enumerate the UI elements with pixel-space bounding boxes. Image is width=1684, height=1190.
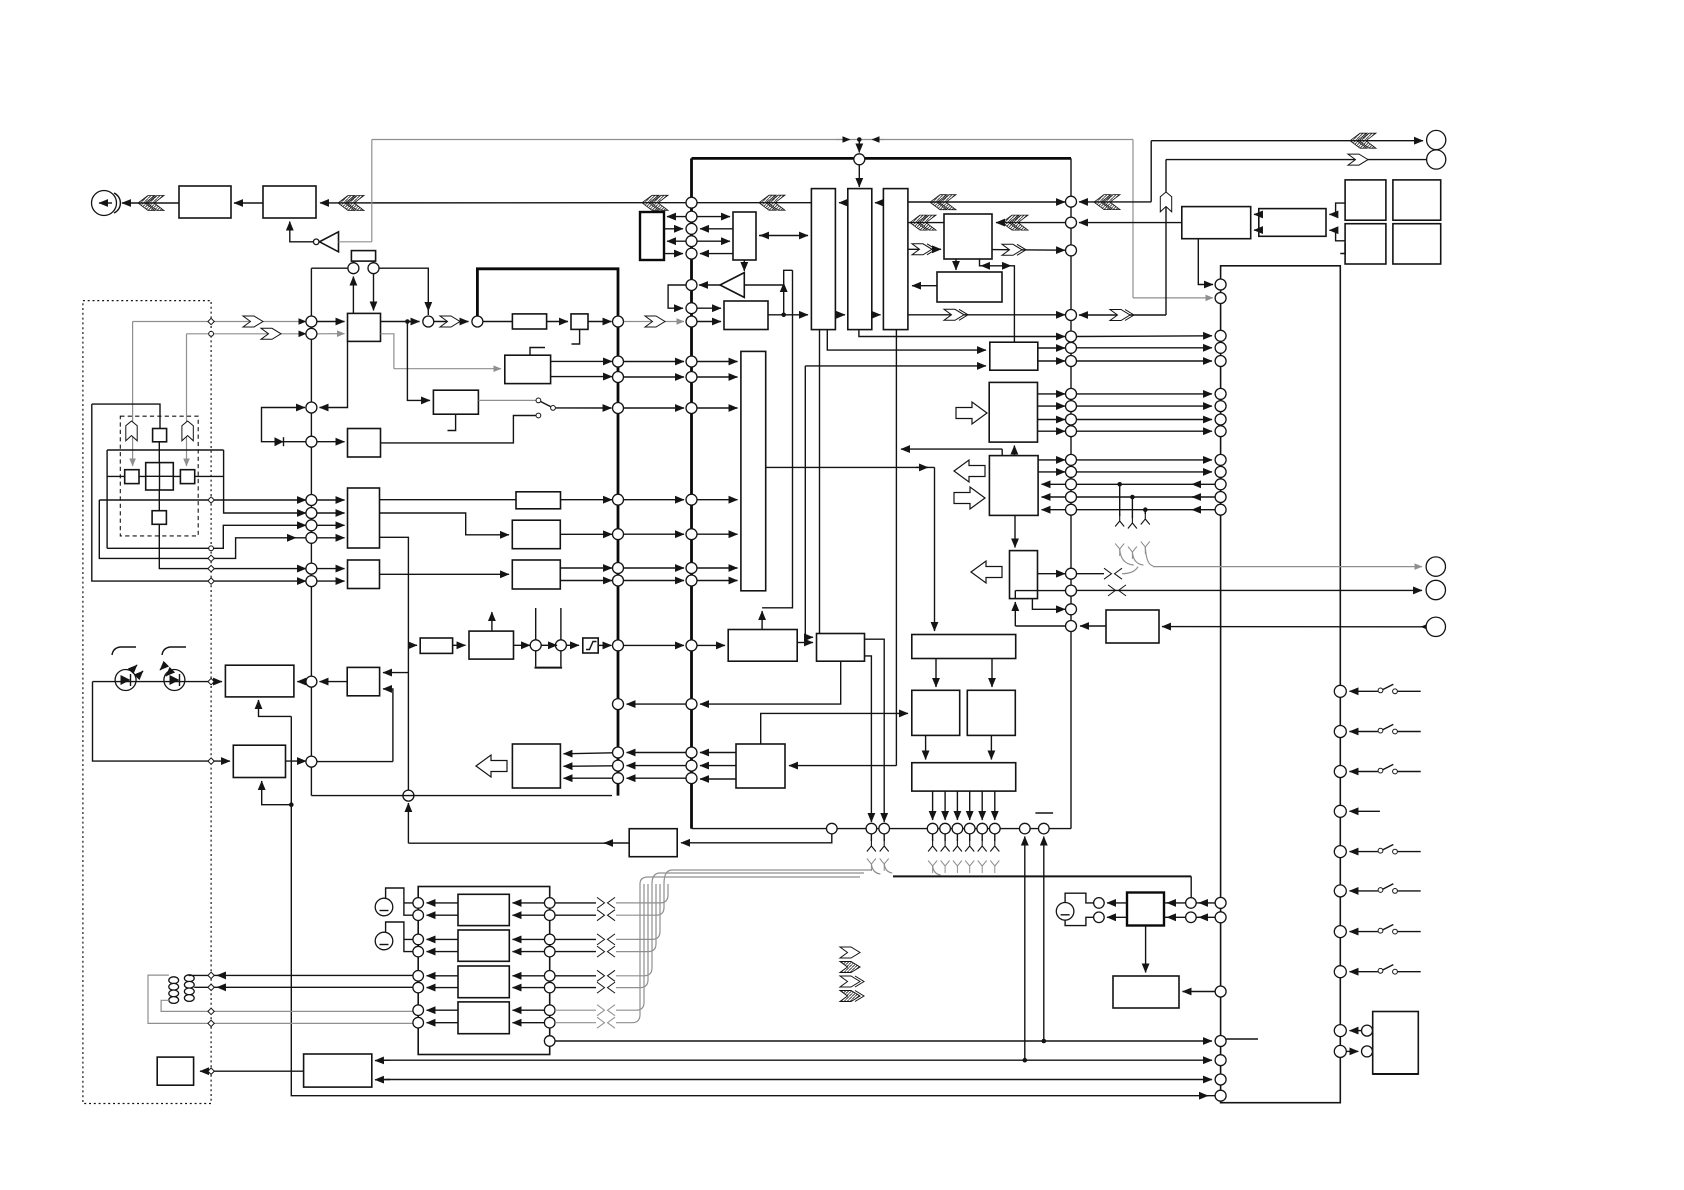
hysteresis glyph [583,638,598,653]
label stub [1035,812,1053,814]
grey tracking line 2 [187,333,307,335]
IC2-IC3 link y202.7 [875,202,883,204]
grey into CN right [1133,297,1213,299]
box A1 [179,186,231,218]
wire inv2 right to riser [744,284,783,286]
key sw row 5 [1334,846,1346,858]
wires bus1071 to U10 pins [1077,335,1213,338]
wire PH2 to bus618 pin [588,321,612,323]
node ph2 [555,640,566,651]
wire hysteresis to bus618 [598,644,611,646]
output B line [107,525,306,548]
data rail 2 [377,1059,1212,1061]
legend chevron hatched [840,962,860,973]
wire 692 to box L [697,644,725,646]
wire BB to AA [200,1070,304,1072]
stub sq3 to U10 corner [1340,243,1345,254]
tap to box HH [408,644,417,646]
junction drop to box W1 [407,322,430,401]
box JJ (display) [1373,1012,1419,1075]
big box U10 (system control IC) [1221,266,1341,1103]
stub row 4 [1334,805,1346,817]
drop c2 to box SV1 [373,274,375,311]
grey tracking coil loop [148,975,413,1023]
input pins to SV1 [317,321,345,323]
U10 pin stub [1226,1038,1258,1040]
FF lower input from pin761 riser [383,689,393,762]
IC2-IC3 link y314.8 [872,314,881,316]
square sq1 [1345,180,1386,220]
corner riser x1151.2 [1150,141,1152,202]
box W1 (wobble) [433,390,478,414]
switch SW1 contact c [536,413,541,418]
bit line 3 with break [555,938,596,940]
bus311 pins [306,316,317,327]
link 618-692 y645.4 [624,644,685,646]
box DAC1 [458,894,509,925]
DAC left wires [427,902,459,904]
box S (decoder) [990,342,1038,370]
H out to bus618 [561,499,613,501]
summing node c2 [368,263,379,274]
audio out source G2 [375,932,393,950]
wire focus coil bottom [194,986,413,988]
wire inverter to A2 bottom [290,222,314,242]
box M out1 drop [865,639,885,822]
wire ph2 to hysteresis [566,644,579,646]
grey wire to box FL [394,368,501,370]
motor M1 [92,191,121,216]
tall box IC2 [848,189,872,330]
key sw row 2 [1334,726,1346,738]
box C [1182,207,1251,239]
V bottom out to pin609 [1032,599,1065,610]
Y pins to O and O2 [935,658,937,687]
grey riser [371,140,373,242]
SV1 grey lower output [381,334,394,369]
tap riser pin1043 [1043,837,1045,1042]
connector J1 [1427,130,1446,149]
key sw row 1 [1334,685,1346,697]
detector side links [107,475,224,477]
IC3 out y314.8 to bus1071 [908,314,1065,316]
link bus1071 to flag riser y315 [1079,314,1166,316]
link 618-692 y361.5 [624,361,685,363]
wire EE out to pin761 [286,760,307,762]
FL flag stub [530,348,545,356]
wire pin681 to DD [297,681,306,683]
wire y202 IC3 to bus1071 [908,201,1065,203]
wire HH to LL [453,644,466,646]
box K [512,560,560,589]
clock pin circle on rail [854,154,865,165]
xtal pins right [1186,898,1197,909]
left column lead [106,450,108,548]
big arrow out U [954,460,985,482]
data rail 3 [377,1079,1212,1081]
JJ link pins [1334,1025,1346,1037]
stem to bottom square [158,490,160,511]
box EE bottom feed [262,781,292,805]
bottom rail bus311 to bus618 [311,795,612,797]
box DAC4 [458,1002,509,1034]
chevron on grey 1 [243,316,263,327]
wires to U10 pins [1199,902,1215,904]
square sq4 [1393,224,1441,264]
wire RF1 bottom to RF2 [955,259,957,270]
box V (mute) [1010,551,1038,599]
box A2 [263,186,316,218]
U outs [1038,459,1065,461]
diode loop [262,408,306,442]
box DD bottom feed [259,700,292,716]
wire to connector J2 [1166,159,1426,161]
bit line 6 with break [555,987,596,989]
tall box F (servo DSP) [741,351,766,590]
U bottom pin to V [1014,515,1016,547]
box LL [469,631,514,659]
N outs to 692 pins [700,752,736,754]
box GG (xtal osc) [1127,893,1164,926]
wire bus692 to A2 [320,202,686,204]
wire to connector J1 [1151,140,1423,142]
box FF (T-servo) [347,667,379,695]
wire motor to box A1 [122,202,179,204]
box FL (focus logic) [505,355,551,383]
drop to clock pin circle [858,140,860,153]
detector bottom square [152,511,166,525]
wire SV1 bottom to pin407 [320,341,348,408]
flag glyph right [182,421,193,441]
links 692-618 feed rows [627,752,687,754]
wire LED loop to box EE [93,682,231,762]
key sw row 8 [1334,966,1346,978]
IC3 pin long drop to box N [895,329,897,765]
grey link bus618 to bus692 y321.5 [624,321,685,323]
tap riser pin1024 [1024,837,1026,1061]
G1 bracket [386,888,413,915]
detector quad grid [146,463,174,490]
grey wire W1 to switch SW1 [479,399,536,401]
top tie bar [107,449,224,451]
hatched arrow on motor wire [138,196,164,211]
wires 692 to box F [697,361,738,363]
box D2 [733,212,756,260]
riser c1 to box SV1 [352,277,354,314]
links 618-692 servo rows [624,499,685,501]
wires D to C [1254,213,1259,215]
big arrow KK [476,755,507,777]
solid L lead [92,404,160,428]
box P (output stage) [912,763,1016,791]
grey drop to detector [132,322,134,467]
box D1 (thick demod) [640,212,664,260]
FL out2 to bus618 [551,376,612,378]
coil L2 [184,975,194,1002]
box DAC2 [458,930,509,961]
switch SW1 contact a [536,398,541,403]
wire y222.6 bus1071 to box C [1079,222,1182,224]
legend chevron open double [840,976,864,987]
box DD (APC) [225,665,294,697]
box DAC3 [458,966,509,998]
box O2 [967,690,1015,735]
feedthrough small circle [209,331,214,336]
wire x896 to box U top [901,448,1002,450]
key sw row 6 [1334,885,1346,897]
grey bit line 7 [555,1009,596,1011]
tall box IC1 [811,189,835,330]
bit line 2 with break [555,914,596,916]
output D line [92,404,306,581]
IC1-IC2 link y314.8 [835,314,845,316]
feedback loop pin285 to pin308 [668,285,686,308]
key sw row 7 [1334,926,1346,938]
X out to pin626 [1080,625,1106,627]
V bottom feed riser [1014,602,1016,626]
box O [912,690,960,735]
bit line 5 with break [555,975,596,977]
node pin796 [403,790,414,801]
IC1 pin2 to box S in1 [827,329,986,350]
wire y202 right leg from corner [1079,201,1151,203]
FF out to pin681 [320,681,348,683]
grey wire inverter input [339,241,372,243]
grey right leg [1132,140,1134,298]
frame right pins [544,898,555,909]
box U (codec) [989,456,1038,516]
link 618-692 y377 [624,376,685,378]
audio out source G1 [375,898,393,916]
IC1 pin drop to M top [819,329,821,633]
wire RF2 to IC3 [912,285,937,287]
box C bottom to CN284 [1198,239,1213,285]
wire focus coil top [189,974,413,976]
wire LL to peak nodes [514,644,531,646]
wire pin477 to box PH1 [483,321,513,323]
switch SW1 blade [541,402,551,407]
E1 output row y=314.8 [768,314,808,316]
detector top square [153,429,167,442]
square sq2 [1393,180,1441,220]
bus1071 pins [1066,196,1077,207]
wire L to M [797,642,813,644]
wire RF1 to bus1071 y222.6 [996,222,1065,224]
chevron on grey 2 [261,328,281,339]
box F out to box Y feed [766,466,935,468]
LED D-L1 [115,665,143,691]
thick top rail [692,157,1072,160]
drop to box L top [761,611,763,630]
junction dot on supply riser [289,802,294,807]
box M out2 drop [865,656,872,822]
switch SW1 contact b [551,406,556,411]
serial rail to crystal block [893,875,1191,877]
box EE (LD drive) [233,745,285,777]
branch riser x805.3 [805,636,813,638]
box II (reset) [1113,976,1179,1008]
LL top pin [491,612,493,631]
link 618-692 y408 [624,407,685,409]
inverter U-inv1 [320,232,339,252]
S outs to bus1071 [1038,347,1065,349]
DAC right wires [513,902,545,904]
inputs to J [317,568,345,570]
key sw row 3 [1334,766,1346,778]
box HH [420,638,452,653]
box FO (focus ok) [348,429,381,458]
xtal pins left [1094,898,1105,909]
stem top square [158,442,160,463]
P bottom pins [932,791,934,820]
wire pin428 to pin477 [434,321,469,323]
supply riser to bottom rail [291,716,1215,1095]
long feedback riser x792.5 [762,270,792,608]
tall box IC3 [883,189,908,330]
digital out line to J4 [1077,589,1423,591]
bus B311 [310,268,312,795]
box KK (spindle) [512,744,560,788]
tap to box FF [383,672,408,674]
big arrow into T [956,402,987,424]
flag on riser [1160,192,1171,212]
grey audio line to J3 [1153,566,1422,568]
box M [817,634,865,662]
wire caps to corner drop [379,268,428,315]
data rail 1 [555,1040,1212,1042]
wire photodiodes to box DD [93,681,223,683]
box X (interface) [1106,610,1159,643]
wire row to Q [681,834,832,843]
wire A2 to A1 [234,202,263,204]
node pin477 [472,316,483,327]
flag glyph left [126,421,137,441]
connector J4 [1426,580,1445,599]
wire D2 bottom to inverter U-inv2 [743,260,745,271]
W1 reset stub [448,414,456,430]
thick loop to bus618 [477,269,618,796]
DAC frame [418,887,550,1055]
bias taps with forks [1117,482,1122,487]
J out to box K [380,573,510,575]
legend chevron hatched double [840,991,864,1002]
grey bundle merge to serial rail [640,870,872,884]
box D [1259,209,1326,237]
hatched arrow near bus [642,195,668,210]
wire D2 to IC1 (bidir) [759,235,808,237]
grey tracking line 1 [133,321,306,323]
output C line [159,524,306,568]
FL out1 to bus618 [551,360,612,362]
summing node c1 [348,263,359,274]
wire FO box to contact c [381,416,536,443]
box PH1 [512,314,546,329]
G3 bracket [1065,893,1093,925]
box BB (power) [304,1054,372,1087]
riser x1166 to top right circle line [1165,160,1167,315]
wire M bottom link y704 [700,661,841,704]
hatched arrow [759,195,785,210]
grey mating forks [867,859,876,872]
G out2 jog to box I [380,513,510,535]
grey fork merge cluster [1115,544,1124,557]
detector left square [125,470,139,484]
wires GG to right pins [1167,902,1186,904]
output E line [99,499,306,501]
box RF1 [944,214,992,259]
wire ph1-ph2 [541,644,557,646]
box J (tracking) [348,560,380,589]
node ph1 [530,640,541,651]
big arrow in U [954,487,985,509]
connector J5 [1426,617,1445,636]
grey serial hooks [871,864,940,875]
wire IC3 to RF1 y222.6 [908,222,944,224]
wires D1 to bus692 pins [667,216,686,218]
peak hold bracket [536,608,561,667]
detector right square [180,470,194,484]
stub D to sq3 [1329,230,1345,241]
bit line 4 with break [555,951,596,953]
inverter U-inv2 [720,273,744,298]
legend chevron open [840,947,860,958]
IC1-IC2 link y202.7 [839,202,848,204]
bus618 pins [613,316,624,327]
stub D to sq1 [1329,203,1345,214]
box RF2 [937,272,1002,302]
PH2 reset stub [572,329,580,344]
G out1 to box H [380,499,517,501]
fork stems under row [870,834,872,841]
V outs [1038,573,1066,575]
top link to summing caps [311,267,348,269]
wires GG to left pins [1107,902,1127,904]
key switch rows on U10 right edge [1334,684,1420,697]
output E drop [99,500,306,558]
box Q (brake) [629,829,677,857]
U ins from right [1042,483,1066,485]
bus B1071 vertical [1070,158,1072,828]
wire II to U10 pin [1183,991,1216,993]
wire N right input [789,765,896,767]
grey tracking coil hook [161,1000,413,1011]
control line J5 to box X [1162,626,1426,628]
coil L1 [169,977,179,1004]
wire RF1 bottom to box S top [980,259,1015,342]
IC2 pin to bus1071 y336 [859,329,1065,336]
hatched arrow mid [338,196,364,211]
connector J3 [1426,557,1445,576]
G out3 long drop x408.4 [380,537,409,790]
box E1 error amp [724,301,768,330]
box PH2 small [571,314,588,330]
GG bottom pin to box II [1145,926,1147,973]
bit line 1 with break [555,902,596,904]
square sq3 [1345,224,1386,264]
wires 618 pins to box KK [564,753,613,754]
wire IC3 to RF1 y249.3 [908,248,941,250]
wire bus692 to IC1 y202.7 [697,202,811,204]
big arrow out V [971,561,1002,583]
output A line [224,450,306,513]
frame left pins [413,898,424,909]
feedthrough diamond [208,318,214,324]
node pin428 [423,316,434,327]
O/O2 pins to P [925,735,927,759]
wire inv2 out to bus692 pin [699,284,720,286]
I out to bus618 [560,533,612,535]
box T (RAM) [989,382,1037,442]
